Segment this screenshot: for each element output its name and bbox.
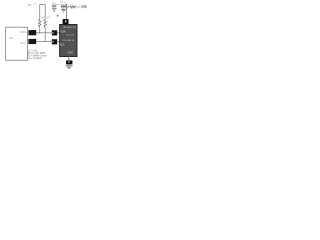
svg-text:SDA: SDA [60, 30, 66, 34]
svg-text:SCL: SCL [20, 42, 25, 45]
svg-text:VOLUME 24: VOLUME 24 [62, 40, 75, 42]
svg-text:ISD 8R 0.5W: ISD 8R 0.5W [63, 27, 77, 29]
svg-text:GND: GND [68, 51, 74, 54]
svg-text:SDA: SDA [20, 31, 25, 34]
svg-text:VOL 2W: VOL 2W [66, 35, 75, 37]
svg-text:5V: 5V [28, 3, 32, 7]
svg-text:SCL: SCL [60, 43, 66, 47]
svg-text:IC1: IC1 [9, 36, 14, 40]
svg-text:S1 = pushbtn: S1 = pushbtn [28, 57, 43, 60]
